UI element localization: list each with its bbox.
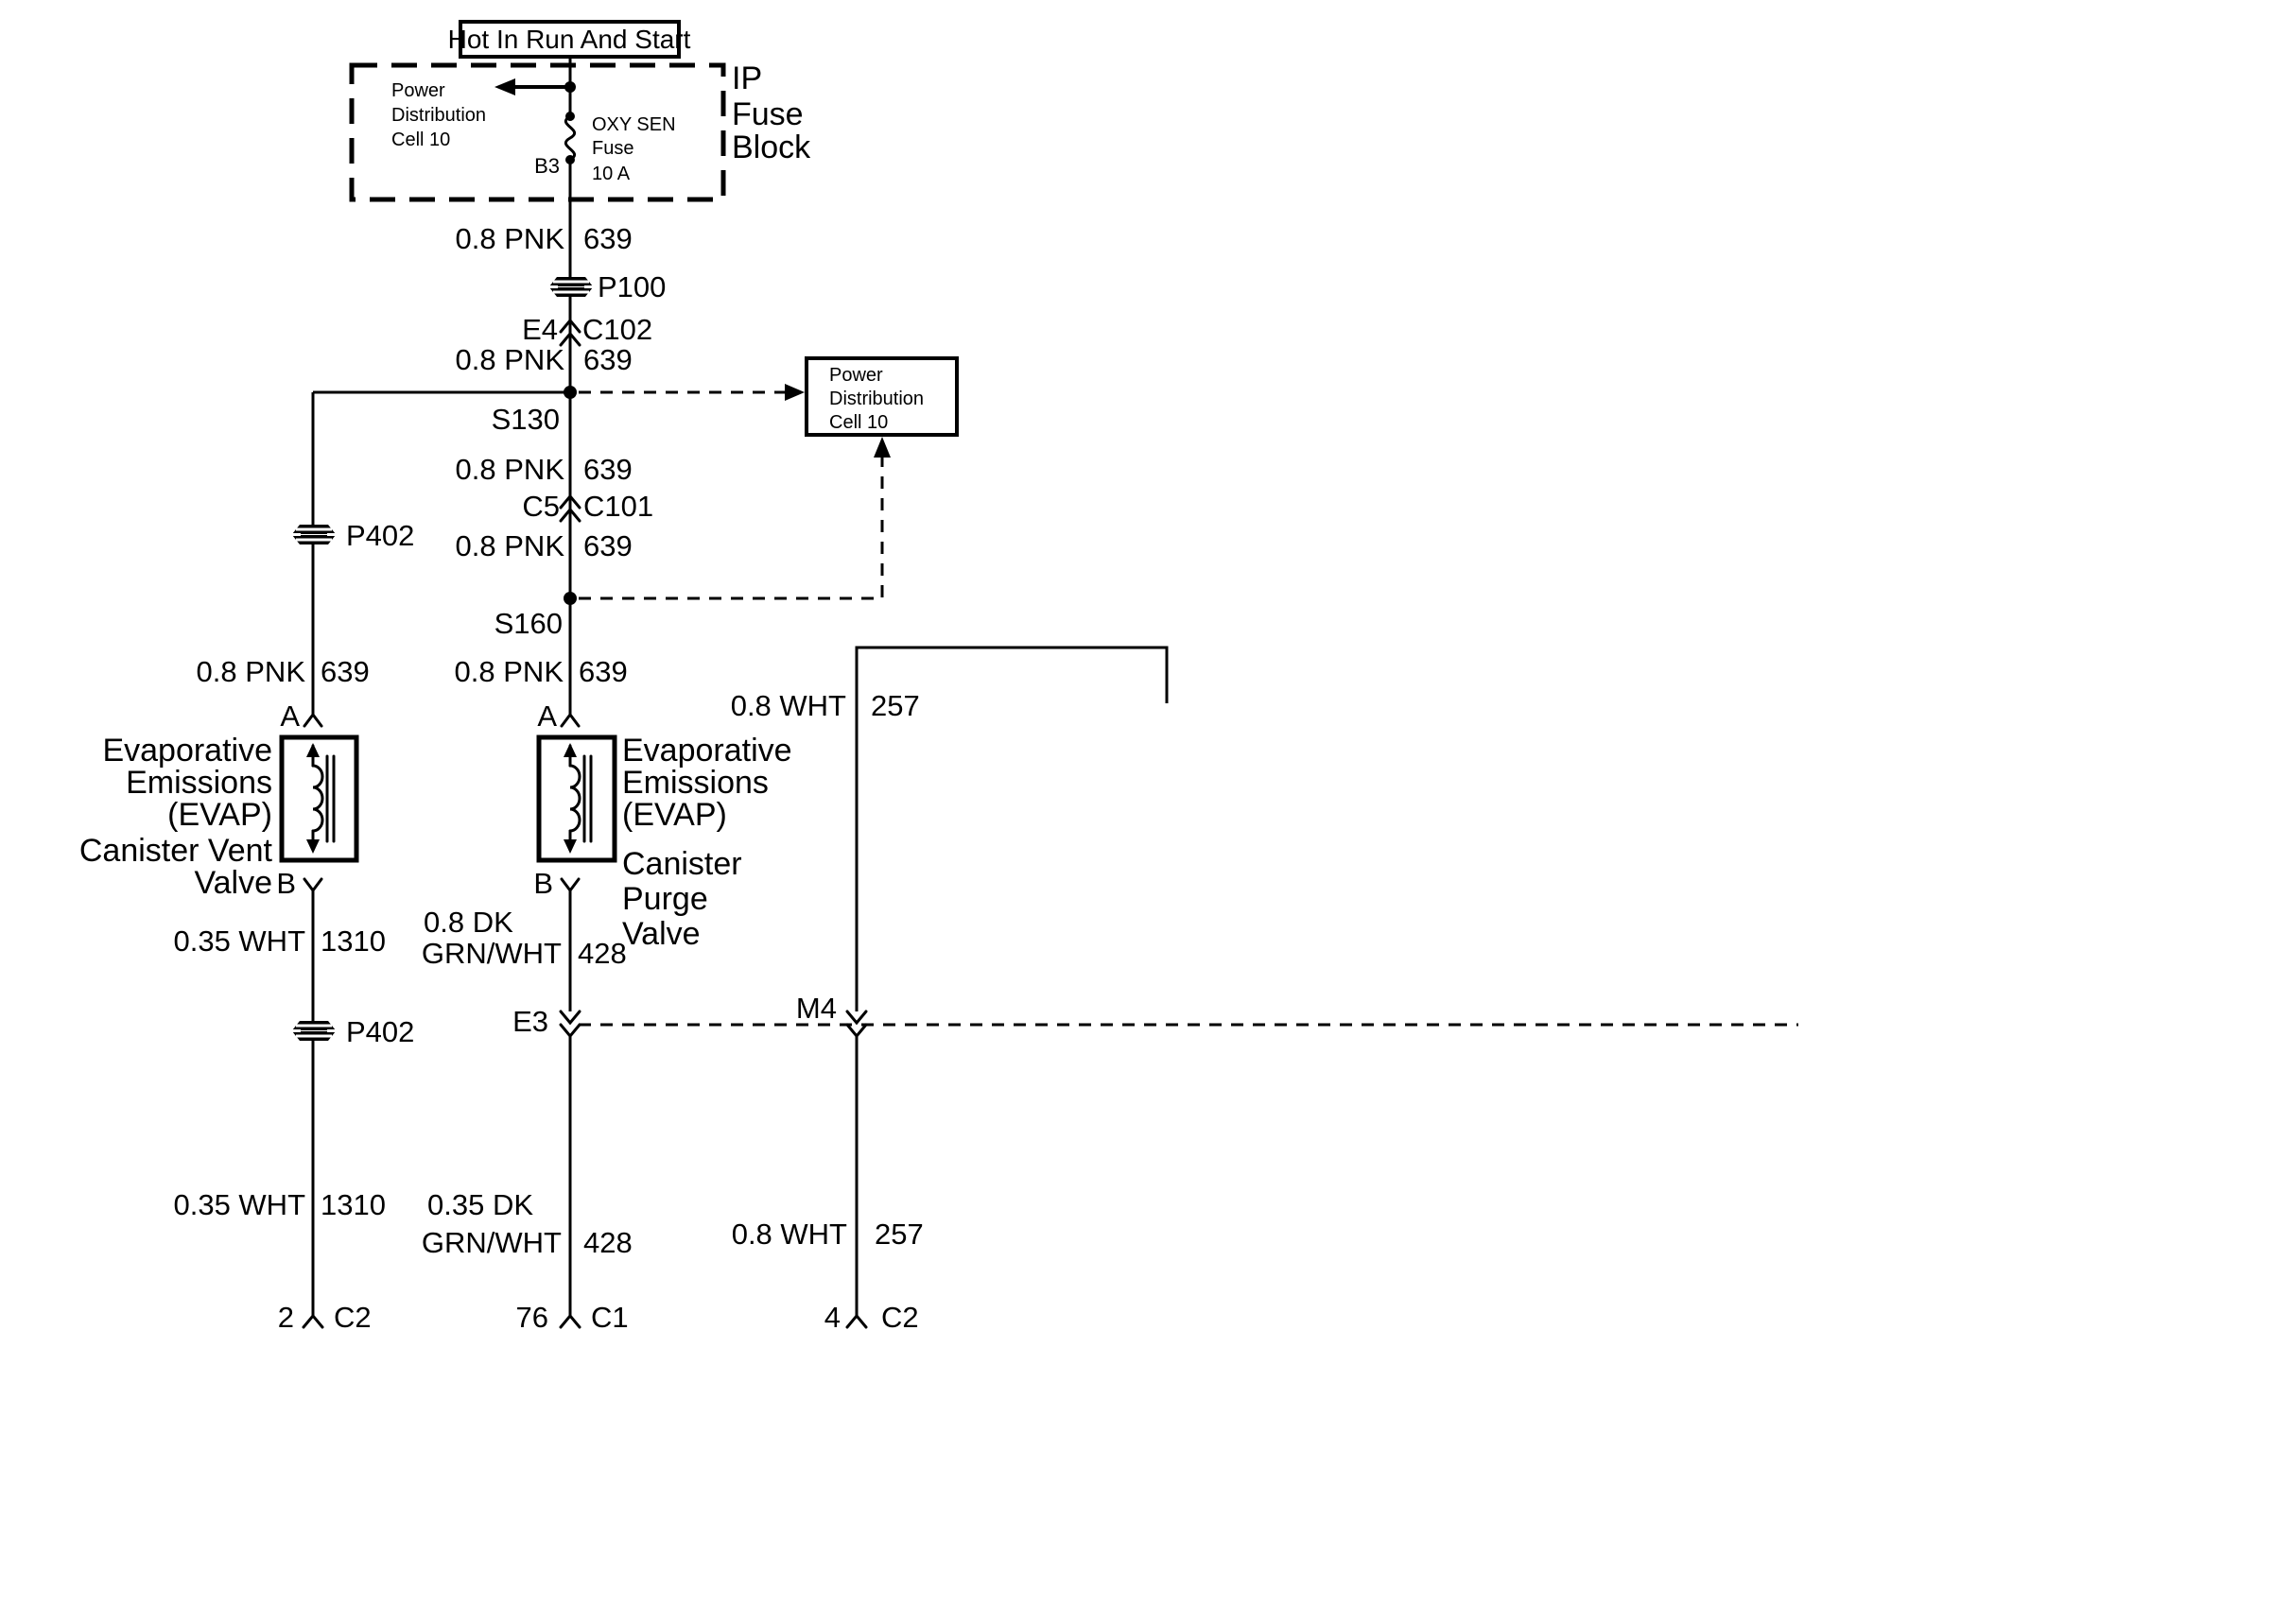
harness C101 dashed line xyxy=(579,1024,1798,1027)
svg-text:Emissions: Emissions xyxy=(126,765,272,801)
svg-text:C2: C2 xyxy=(334,1301,372,1334)
wire 0.8 PNK 639 seg1 xyxy=(569,160,572,278)
svg-text:B: B xyxy=(533,867,553,900)
svg-text:Valve: Valve xyxy=(622,916,701,952)
wire power distribution feed arrow xyxy=(495,78,576,95)
svg-text:4: 4 xyxy=(824,1301,841,1334)
svg-text:E4: E4 xyxy=(522,313,558,346)
label 0.8 DK GRN/WHT 428 xyxy=(422,906,627,970)
label Evaporative Emissions (EVAP) Canister Purge Valve xyxy=(622,733,792,952)
label 0.35 WHT 1310 xyxy=(173,924,386,958)
label 0.8 PNK 639 xyxy=(456,222,633,255)
wire 0.8 DK GRN/WHT 428 xyxy=(569,902,572,1011)
wire branch to EVAP vent valve xyxy=(313,391,570,394)
svg-text:B: B xyxy=(276,867,296,900)
svg-text:0.8 PNK: 0.8 PNK xyxy=(456,222,565,255)
wire 0.35 WHT 1310 seg1 xyxy=(312,902,315,1025)
svg-text:Distribution: Distribution xyxy=(829,389,924,409)
svg-text:Block: Block xyxy=(732,130,811,165)
svg-text:GRN/WHT: GRN/WHT xyxy=(422,937,562,970)
pin B (vent valve) xyxy=(276,867,321,902)
svg-text:Power: Power xyxy=(829,365,883,386)
svg-text:M4: M4 xyxy=(796,992,837,1025)
svg-text:IP: IP xyxy=(732,60,762,96)
connector P402 xyxy=(289,519,414,552)
pin A (purge valve) xyxy=(537,700,579,733)
svg-text:0.8 WHT: 0.8 WHT xyxy=(732,1218,847,1251)
wire dashed S160 to Power Distribution xyxy=(579,437,891,598)
svg-text:428: 428 xyxy=(583,1226,633,1259)
splice S130 xyxy=(492,386,577,436)
svg-text:Fuse: Fuse xyxy=(732,96,804,132)
label Power Distribution Cell 10 (fuse block) xyxy=(391,80,486,150)
wire 0.35 DK GRN/WHT 428 xyxy=(569,1036,572,1304)
wire seg2 xyxy=(569,297,572,392)
svg-text:C101: C101 xyxy=(583,490,653,523)
svg-text:0.8 PNK: 0.8 PNK xyxy=(455,655,564,688)
wire seg3 xyxy=(569,392,572,711)
pin 2 C2 xyxy=(278,1301,372,1334)
svg-text:0.35 DK: 0.35 DK xyxy=(427,1188,533,1221)
svg-text:(EVAP): (EVAP) xyxy=(167,797,272,833)
pin B (purge valve) xyxy=(533,867,579,902)
svg-text:0.35 WHT: 0.35 WHT xyxy=(173,924,305,958)
svg-text:OXY SEN: OXY SEN xyxy=(592,114,676,135)
wire left seg2 xyxy=(312,544,315,711)
svg-text:0.8 DK: 0.8 DK xyxy=(424,906,513,939)
svg-text:A: A xyxy=(537,700,557,733)
pin A (vent valve) xyxy=(280,700,321,733)
connector P100 xyxy=(547,270,666,303)
svg-text:Valve: Valve xyxy=(194,865,272,901)
solenoid EVAP canister vent valve xyxy=(282,737,356,860)
label 0.8 PNK 639 xyxy=(456,453,633,486)
svg-text:639: 639 xyxy=(321,655,370,688)
svg-text:Distribution: Distribution xyxy=(391,105,486,126)
connector C101 pin M4 xyxy=(796,992,866,1036)
svg-text:Canister: Canister xyxy=(622,846,742,882)
wire 0.8 WHT 257 lower xyxy=(856,1036,859,1304)
svg-text:Hot In Run And Start: Hot In Run And Start xyxy=(448,25,691,54)
wire fuse feed xyxy=(569,57,572,116)
svg-text:C2: C2 xyxy=(881,1301,919,1334)
svg-text:(EVAP): (EVAP) xyxy=(622,797,727,833)
fuse OXY SEN 10A xyxy=(565,112,575,164)
label 0.8 WHT 257 xyxy=(731,689,920,722)
svg-text:639: 639 xyxy=(583,529,633,562)
svg-text:Cell 10: Cell 10 xyxy=(391,130,450,150)
svg-text:E3: E3 xyxy=(512,1005,548,1038)
label 0.8 PNK 639 xyxy=(456,343,633,376)
solenoid EVAP canister purge valve xyxy=(539,737,615,860)
svg-text:P402: P402 xyxy=(346,1015,414,1048)
IP fuse block (dashed) xyxy=(352,65,723,199)
svg-text:A: A xyxy=(280,700,300,733)
label 0.35 DK GRN/WHT 428 xyxy=(422,1188,633,1259)
svg-text:Evaporative: Evaporative xyxy=(622,733,792,769)
svg-text:1310: 1310 xyxy=(321,1188,386,1221)
label 0.35 WHT 1310 xyxy=(173,1188,386,1221)
svg-text:B3: B3 xyxy=(534,154,560,178)
svg-text:P402: P402 xyxy=(346,519,414,552)
splice S160 xyxy=(495,592,577,640)
pin 4 C2 xyxy=(824,1301,919,1334)
wire 0.8 WHT 257 upper xyxy=(857,648,1167,1011)
svg-text:0.8 PNK: 0.8 PNK xyxy=(456,529,565,562)
svg-text:257: 257 xyxy=(871,689,920,722)
connector P402 xyxy=(289,1015,414,1048)
svg-text:C1: C1 xyxy=(591,1301,629,1334)
connector C102 pin E4 xyxy=(522,313,652,346)
svg-text:0.8 PNK: 0.8 PNK xyxy=(456,453,565,486)
label IP Fuse Block xyxy=(732,60,811,165)
svg-text:Purge: Purge xyxy=(622,881,708,917)
label 0.8 PNK 639 xyxy=(456,529,633,562)
svg-text:257: 257 xyxy=(875,1218,924,1251)
pin 76 C1 xyxy=(516,1301,629,1334)
svg-text:0.8 WHT: 0.8 WHT xyxy=(731,689,846,722)
svg-text:Evaporative: Evaporative xyxy=(102,733,272,769)
svg-text:C102: C102 xyxy=(582,313,652,346)
connector C101 pin E3 xyxy=(512,1005,580,1038)
wire dashed S130 to Power Distribution xyxy=(579,384,805,401)
svg-text:Canister Vent: Canister Vent xyxy=(79,833,273,869)
wire left branch down xyxy=(312,392,315,528)
svg-text:0.35 WHT: 0.35 WHT xyxy=(173,1188,305,1221)
svg-text:Power: Power xyxy=(391,80,445,101)
label 0.8 PNK 639 xyxy=(197,655,370,688)
wire 0.35 WHT 1310 seg2 xyxy=(312,1041,315,1304)
label OXY SEN Fuse 10 A xyxy=(592,114,676,184)
svg-text:S160: S160 xyxy=(495,607,563,640)
svg-text:Cell 10: Cell 10 xyxy=(829,412,888,433)
svg-text:10 A: 10 A xyxy=(592,164,631,184)
svg-text:C5: C5 xyxy=(522,490,560,523)
svg-text:Emissions: Emissions xyxy=(622,765,769,801)
label 0.8 WHT 257 xyxy=(732,1218,924,1251)
connector C101 pin C5 xyxy=(522,490,653,523)
svg-text:S130: S130 xyxy=(492,403,560,436)
svg-text:2: 2 xyxy=(278,1301,294,1334)
svg-text:639: 639 xyxy=(583,222,633,255)
node Power Distribution Cell 10 xyxy=(807,358,957,435)
svg-text:0.8 PNK: 0.8 PNK xyxy=(456,343,565,376)
svg-text:639: 639 xyxy=(583,453,633,486)
svg-text:76: 76 xyxy=(516,1301,548,1334)
svg-text:Fuse: Fuse xyxy=(592,138,633,159)
label Hot In Run And Start xyxy=(448,22,691,57)
svg-text:GRN/WHT: GRN/WHT xyxy=(422,1226,562,1259)
label 0.8 PNK 639 xyxy=(455,655,628,688)
svg-text:639: 639 xyxy=(583,343,633,376)
svg-text:428: 428 xyxy=(578,937,627,970)
svg-text:1310: 1310 xyxy=(321,924,386,958)
svg-text:639: 639 xyxy=(579,655,628,688)
svg-text:0.8 PNK: 0.8 PNK xyxy=(197,655,306,688)
svg-text:P100: P100 xyxy=(598,270,666,303)
label Evaporative Emissions (EVAP) Canister Vent Valve xyxy=(79,733,273,901)
